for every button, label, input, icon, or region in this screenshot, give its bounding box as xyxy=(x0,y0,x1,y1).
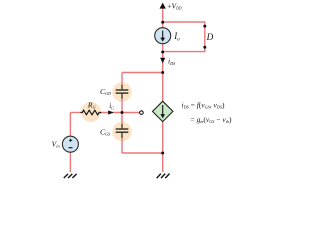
svg-text:iG: iG xyxy=(109,102,114,110)
svg-text:D: D xyxy=(206,32,214,42)
svg-text:CGS: CGS xyxy=(100,128,110,137)
svg-text:CGD: CGD xyxy=(100,87,111,96)
svg-text:RG: RG xyxy=(87,101,96,110)
svg-text:Vin: Vin xyxy=(52,139,61,148)
svg-text:Io: Io xyxy=(173,31,180,43)
svg-text:iDS: iDS xyxy=(168,57,176,66)
svg-text:= gm(vGS − vth): = gm(vGS − vth) xyxy=(191,115,232,124)
svg-text:+VDD: +VDD xyxy=(167,1,182,10)
svg-text:iDS = f(vGS, vDS): iDS = f(vGS, vDS) xyxy=(182,100,225,109)
